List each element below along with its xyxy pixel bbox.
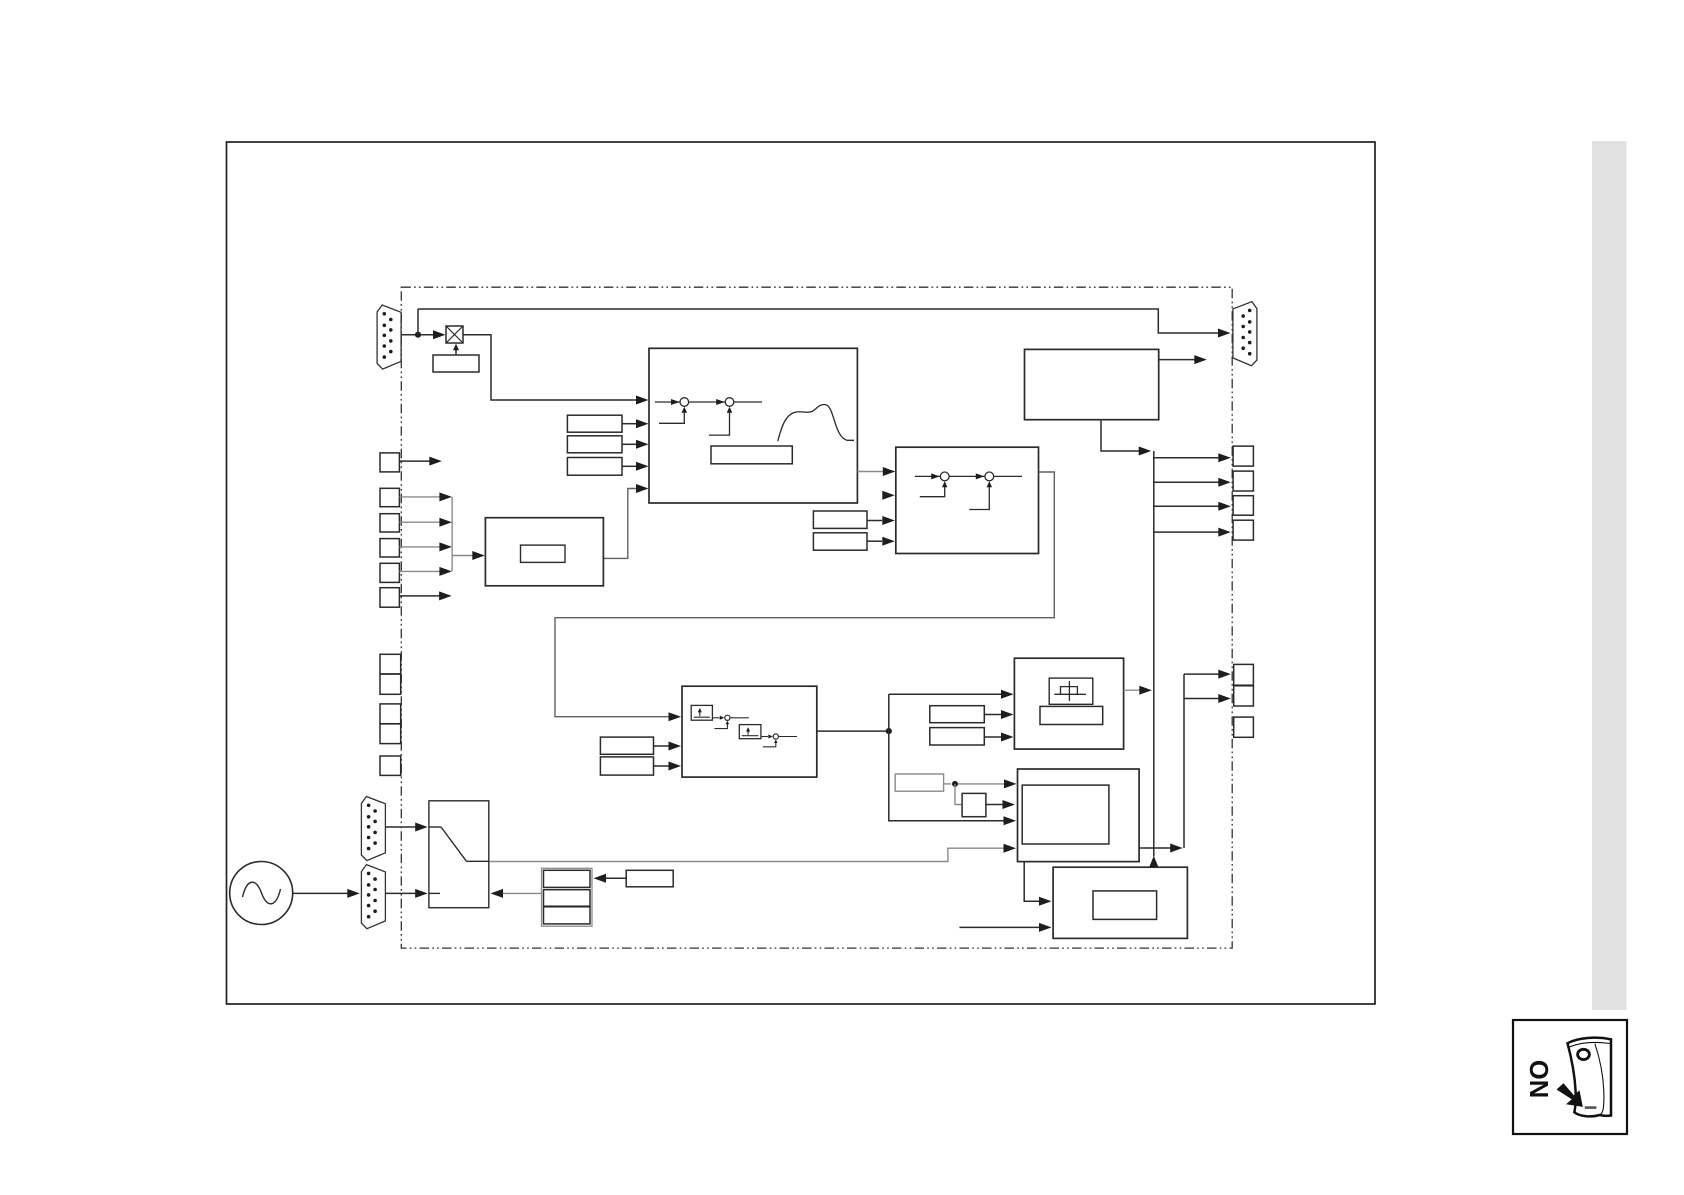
svg-text:ON: ON	[1524, 1060, 1552, 1098]
wire B5 bottom output to B6	[1024, 862, 1040, 902]
wire AC source to CN-C2	[293, 892, 348, 894]
connector CN-C2 (main power, D-sub)	[361, 865, 385, 929]
terminal U5	[380, 756, 401, 775]
wire node up to B4	[888, 694, 890, 731]
terminal S6	[1234, 686, 1254, 706]
connector CN-B (encoder, D-sub)	[1233, 302, 1257, 366]
relay / inrush switch block	[429, 801, 489, 908]
floating arrow into B2 input 2	[882, 491, 895, 500]
TB output arrow toward CN-B	[1159, 359, 1195, 361]
wire from T1	[399, 496, 441, 498]
wire from T0	[399, 460, 430, 462]
input merge bus	[451, 497, 453, 572]
block B1: position control	[649, 348, 857, 503]
outer page frame	[227, 142, 1376, 1004]
parameter box L	[626, 870, 673, 887]
arrow P1 up into multiplier	[455, 347, 457, 355]
terminal S5	[1234, 664, 1254, 685]
node on J wire	[952, 781, 958, 787]
B3 step icon 1	[691, 705, 712, 720]
V2 branch to S5	[1184, 673, 1219, 675]
B2 feedback L-wire into c3	[920, 485, 945, 497]
arrow into c6	[761, 736, 768, 738]
multiplier (electronic gear) X-box	[446, 326, 463, 343]
rocker switch O symbol	[1578, 1049, 1590, 1059]
AC mains source	[230, 862, 293, 925]
wire from T2	[399, 521, 441, 523]
parameter box J (gray)	[895, 774, 943, 791]
parameter box B	[567, 436, 622, 453]
terminal S7	[1234, 717, 1254, 737]
wire B3 output to node	[817, 730, 886, 732]
wire from T4	[399, 570, 441, 572]
wire B4 output to bus V1	[1124, 689, 1140, 691]
wire from T3	[399, 546, 441, 548]
press arrow	[1557, 1083, 1583, 1107]
parameter box E	[813, 533, 867, 550]
LB inner label box	[521, 545, 566, 562]
wire from T5	[399, 595, 440, 597]
rectifier / power module stack	[542, 868, 593, 926]
B1 feedback L-wire into c1	[659, 410, 684, 423]
wire multiplier to position control block	[463, 335, 636, 400]
wire B5 output to bus V2	[1139, 847, 1171, 849]
B1 summing junction c1	[680, 398, 689, 407]
block B5: current control / PWM	[1018, 769, 1140, 862]
bus V2 vertical	[1183, 674, 1185, 848]
B6 output up-arrow into bus V1	[1149, 856, 1158, 867]
terminal U4	[380, 724, 401, 744]
terminal S2	[1233, 471, 1253, 491]
parameter box I	[930, 728, 985, 745]
block B3: torque command filter	[682, 686, 817, 777]
B2 feedback L-wire into c4	[969, 485, 989, 510]
wire into B6 input 2	[959, 926, 1040, 928]
terminal T0	[380, 453, 399, 472]
wire K to B5	[986, 804, 1003, 806]
wire B2 output wrap-around to B3	[555, 472, 1054, 717]
B1 summing junction c2	[725, 398, 734, 407]
V1 branch to S4	[1154, 531, 1219, 533]
block LB: command input processing	[485, 518, 603, 586]
terminal S3	[1233, 496, 1253, 516]
parameter box C	[567, 458, 622, 476]
B3 mini junction c5	[725, 715, 730, 720]
B5 inner label box	[1022, 785, 1109, 844]
block B2: speed control	[896, 447, 1039, 553]
terminal T4	[380, 563, 399, 582]
wire B1 output to B2	[857, 471, 884, 473]
wire relay to B5 input 4	[489, 848, 1004, 861]
wire J to B5	[944, 783, 951, 785]
wire CN-C2 to relay	[385, 892, 416, 894]
B2 summing line	[915, 475, 1022, 477]
right gray sidebar	[1592, 141, 1627, 1010]
parameter box F	[600, 737, 653, 754]
encoder block TB output down wire W1	[1101, 420, 1140, 451]
wire input-processing block to B1 input 5	[603, 489, 637, 559]
arrow into c5	[712, 717, 719, 719]
B1 feedback L-wire into c2	[709, 410, 730, 435]
terminal T3	[380, 539, 399, 557]
parameter box H	[930, 706, 985, 723]
parameter box G	[600, 757, 653, 775]
B2 summing junction c4	[985, 472, 994, 481]
B3 mini junction c6	[773, 734, 778, 739]
V1 branch to S1	[1154, 457, 1219, 459]
rocker switch drawing	[1568, 1038, 1612, 1117]
wire CN-C1 to relay	[385, 826, 416, 828]
V1 branch to S3	[1154, 505, 1219, 507]
terminal T5	[380, 588, 399, 608]
block TB: encoder signal processing	[1025, 349, 1159, 419]
parameter box D	[813, 511, 867, 528]
node: torque branch dot	[886, 728, 892, 734]
connector CN-A (position command input, D-sub)	[377, 305, 401, 369]
V1 branch to S2	[1154, 481, 1219, 483]
terminal T1	[380, 488, 399, 506]
B1 motion profile curve	[778, 404, 854, 441]
B4 dead-zone icon box	[1049, 678, 1093, 704]
terminal T2	[380, 514, 399, 532]
parameter box P1 under multiplier	[433, 355, 479, 372]
B1 inner label box	[711, 446, 792, 464]
terminal S1	[1233, 446, 1253, 466]
B3 step icon 2	[739, 725, 761, 739]
terminal S4	[1233, 520, 1253, 540]
bus V1 vertical	[1153, 451, 1155, 857]
relay contact lines	[429, 826, 441, 828]
wire rectifier to relay (leftward)	[502, 892, 542, 894]
B1 summing line	[655, 401, 762, 403]
wire bus to LB	[452, 555, 473, 557]
wire: top feedback bus to CN-B	[418, 309, 1218, 333]
wire node down into box K	[955, 784, 962, 805]
rocker switch dash symbol	[1585, 1106, 1597, 1109]
B4 inner label box	[1040, 706, 1103, 724]
ON-switch legend box	[1513, 1020, 1627, 1134]
wire CN-A to multiplier	[401, 334, 443, 336]
block B6: main power circuit	[1053, 867, 1187, 938]
B3 L-wire into c6	[763, 741, 776, 746]
terminal U3	[380, 704, 401, 724]
V2 branch to S6	[1184, 698, 1219, 700]
wire node down to B5	[889, 731, 1004, 821]
block B4: torque limit	[1014, 658, 1123, 749]
connector CN-C1 (control power, D-sub)	[361, 797, 385, 861]
amplifier boundary (dash-dot)	[401, 287, 1232, 948]
node: command branch dot	[415, 332, 421, 338]
parameter box K	[962, 793, 986, 816]
wire L to rectifier (leftward)	[605, 877, 626, 879]
terminal U2	[380, 674, 401, 694]
parameter box A	[567, 415, 622, 432]
wire: branch up to feedback bus	[417, 309, 419, 335]
terminal U1	[380, 654, 401, 674]
B6 inner label box	[1093, 891, 1157, 920]
B3 L-wire into c5	[714, 723, 727, 729]
B2 summing junction c3	[940, 472, 949, 481]
arrow into multiplier	[433, 330, 446, 339]
